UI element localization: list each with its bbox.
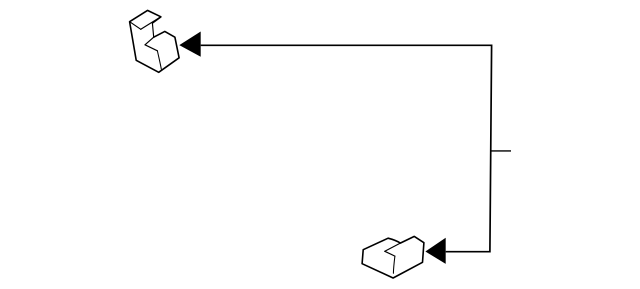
- leader line: horizontal from arrow 1, down right side, to arrow 2: [201, 45, 492, 251]
- clip part 1 top face right-front edge (B to T2): [141, 17, 161, 30]
- clip part 1 outline stroke: [130, 10, 180, 72]
- clip part 1 notch lower edge (N to N2): [145, 45, 157, 51]
- leader arrowhead to part 2: [425, 238, 445, 264]
- leader arrowhead to part 1: [179, 32, 200, 57]
- clip part 1 vertical edge (R0 to R1): [152, 23, 153, 37]
- clip part 2 notch upper edge (S to P1): [385, 243, 401, 251]
- clip part 2 (lower-right bracket) fill: [362, 236, 424, 278]
- clip part 1 top face left-front edge (L to B): [130, 22, 141, 30]
- clip part 2 notch lower edge (P1 to P2): [385, 251, 395, 256]
- tick stub on vertical leader: [491, 150, 511, 152]
- clip part 1 notch upper edge (R1 to N): [145, 37, 154, 45]
- clip part 2 outline stroke: [362, 236, 424, 278]
- clip part 2 front crease (P2 down to bottom): [393, 256, 395, 273]
- clip part 1 front crease (N2 down to bottom): [157, 51, 161, 69]
- clip part 1 (upper-left bracket) outer silhouette: [130, 10, 180, 72]
